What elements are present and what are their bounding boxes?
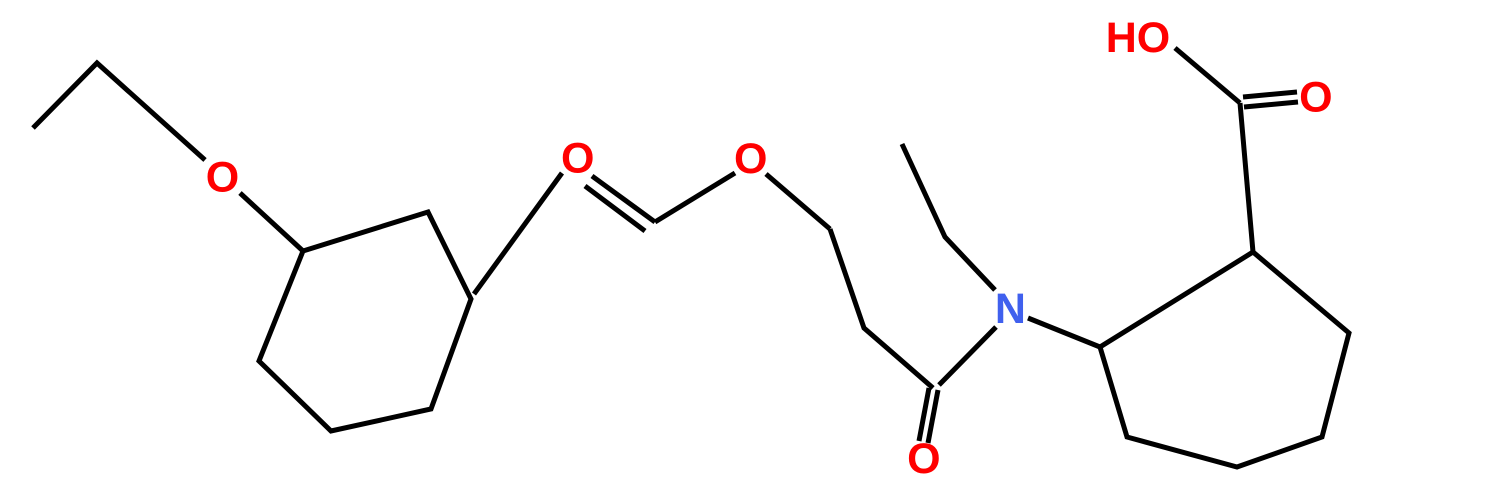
wire ring A to O2 <box>474 173 562 294</box>
wire C-O3 <box>655 173 735 222</box>
svg-text:O: O <box>561 135 594 183</box>
svg-text:N: N <box>995 285 1026 333</box>
wire O3 to chain <box>766 174 830 229</box>
wire O2=C double bond stroke 1 <box>592 176 655 222</box>
wire O1 to ring A <box>240 193 303 251</box>
wire chain to amide C <box>830 229 933 388</box>
wire O2=C double bond stroke 2 <box>585 186 645 231</box>
wire amide C to N <box>939 327 996 385</box>
wire acid C=O4 double stroke 1 <box>1243 92 1297 97</box>
svg-text:O: O <box>734 135 767 183</box>
wire amide C=O5 double stroke 1 <box>919 388 929 441</box>
ring A cyclohexane <box>259 212 471 431</box>
wire acid C to HO <box>1175 48 1240 103</box>
wire ethyl chain CH3-CH2 <box>33 63 205 160</box>
svg-text:HO: HO <box>1106 14 1171 62</box>
svg-text:O: O <box>907 435 940 483</box>
svg-text:O: O <box>206 154 239 202</box>
wire N-ethyl <box>902 144 995 290</box>
ring B cyclohexane <box>1100 252 1349 467</box>
wire acid C=O4 double stroke 2 <box>1244 102 1298 107</box>
wire amide C=O5 double stroke 2 <box>928 390 938 443</box>
svg-text:O: O <box>1299 74 1332 122</box>
wire ring B to acid C <box>1240 103 1253 252</box>
wire N to ring B <box>1028 318 1100 347</box>
